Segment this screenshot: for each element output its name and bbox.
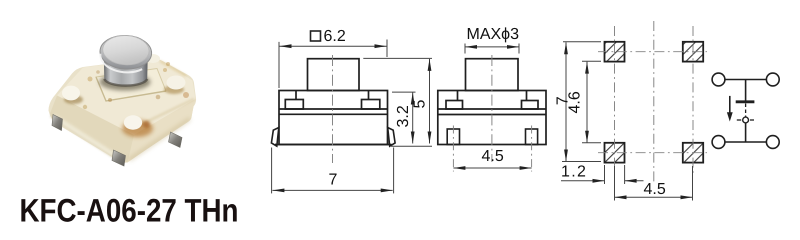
dim 5: bottom extension: [391, 145, 432, 147]
schematic: actuator dash right: [750, 119, 754, 121]
side view: left step: [457, 91, 459, 101]
pcb dim 1.2: line right: [625, 180, 644, 182]
pcb: right column center line: [692, 26, 694, 175]
photo: boss right stain: [164, 85, 184, 94]
photo: button shadow ring: [100, 74, 151, 91]
front view: right bump: [362, 100, 380, 110]
pcb dim 1.2: arrows: [593, 179, 605, 183]
photo: button cylinder bottom dark ring: [104, 79, 147, 86]
photo: left base light band: [53, 116, 120, 159]
pcb dim 4.5: right extension: [692, 166, 694, 201]
pcb: central vertical center line: [653, 21, 655, 183]
pcb dimension 4.6: [582, 61, 601, 143]
pcb dim 1.2: left extension: [604, 165, 606, 184]
svg-text:MAXϕ3: MAXϕ3: [467, 26, 520, 43]
pcb: left column center line: [614, 26, 616, 175]
front view dimension 7: [272, 148, 394, 194]
dim 6.2: square symbol: [311, 31, 321, 41]
pcb: pad top-right: [683, 42, 703, 62]
photo: button platform: [96, 69, 166, 102]
schematic: wire from actuator to bottom: [745, 123, 747, 142]
front view: claw right: [388, 128, 395, 147]
pcb dim 4.5: line: [615, 196, 693, 198]
photo: claw left: [52, 115, 63, 131]
front view: button: [308, 59, 360, 91]
front view: cover line: [279, 108, 388, 110]
front view: body outline: [279, 91, 388, 145]
photo: boss front stain2: [143, 121, 150, 128]
pcb dim 7: bottom extension: [562, 161, 601, 163]
schematic: terminal circle top-right: [766, 73, 779, 86]
schematic: terminal circle bottom-right: [766, 136, 779, 149]
schematic: actuator dash left: [737, 119, 741, 121]
svg-text:6.2: 6.2: [324, 28, 346, 45]
front view dimension 3.2: [392, 92, 416, 143]
dim 7: line: [272, 189, 392, 191]
schematic: wire bottom: [725, 141, 767, 143]
svg-text:1.2: 1.2: [561, 163, 587, 180]
dim 7: arrows: [272, 189, 284, 193]
photo: button cylinder side: [104, 58, 148, 86]
side view: right bump: [522, 101, 539, 110]
schematic: wire from top to contact bar: [745, 80, 747, 101]
photo: bottom-right edge shade: [129, 119, 190, 160]
side view: base top line: [438, 114, 546, 116]
pcb dim 4.5: left extension: [614, 166, 616, 201]
svg-text:4.5: 4.5: [482, 148, 504, 165]
pcb dim 4.6: top extension: [582, 60, 601, 62]
dim 6.2: arrows: [280, 44, 292, 48]
schematic: contact bar: [736, 100, 755, 103]
front view dimension 5: [363, 58, 432, 146]
side view: left pin center line: [452, 126, 454, 172]
dim 7: right extension: [393, 148, 395, 194]
pcb dimension 4.5: [615, 166, 693, 201]
pcb dim 4.5: arrows: [615, 195, 627, 199]
pcb: bottom row center line: [598, 152, 707, 154]
schematic: actuator circle: [743, 117, 749, 123]
dim 6.2: line: [280, 45, 387, 47]
photo: claw right: [169, 132, 183, 148]
dim 5: top extension: [363, 57, 432, 59]
photo: top face: [57, 59, 196, 136]
schematic: press arrow shaft: [729, 96, 731, 114]
svg-text:4.6: 4.6: [567, 91, 584, 113]
front view: right step: [368, 91, 370, 100]
side view: body outline: [438, 91, 546, 145]
schematic: terminal circle top-left: [712, 73, 725, 86]
svg-text:4.5: 4.5: [644, 181, 666, 198]
front view dimension 6.2: [279, 40, 387, 89]
svg-text:7: 7: [329, 171, 338, 188]
photo: button cap: [99, 34, 152, 73]
pcb dim 7: top extension: [563, 41, 601, 43]
photo: boss left: [62, 86, 80, 101]
pcb dim 7: arrows: [564, 42, 568, 54]
side view: button: [466, 59, 519, 91]
dim 6.2: right extension: [386, 40, 388, 58]
side view: right step: [526, 91, 528, 101]
dim 4.5 side: line: [453, 167, 531, 169]
side view: right pin center line: [531, 126, 533, 172]
photo: back-right boss hint: [146, 54, 160, 63]
photo: front-left face: [50, 96, 134, 163]
front view: center line: [332, 55, 334, 163]
front view: left bump: [285, 100, 303, 110]
pcb dim 1.2: right extension: [624, 165, 626, 184]
side view dimension 4.5: [453, 167, 531, 169]
schematic: terminal circle bottom-left: [712, 136, 725, 149]
photo: boss front stain: [122, 120, 153, 137]
dim 3.2: top extension: [392, 91, 416, 93]
dim 7: left extension: [271, 148, 273, 194]
pcb dimension 1.2: [561, 165, 644, 184]
pcb: pad top-left: [605, 42, 625, 62]
photo: bottom-left edge shade: [51, 116, 122, 162]
front view: claw left: [271, 128, 278, 147]
front view: base top line: [279, 113, 388, 115]
photo: front-right face: [128, 99, 196, 163]
pcb: pad bottom-left: [605, 143, 625, 163]
dim 6.2: left extension: [278, 42, 280, 88]
side view dimension MAX phi3: [465, 44, 519, 54]
front view: left step: [295, 91, 297, 100]
photo: boss front: [124, 115, 142, 129]
svg-text:KFC-A06-27 THn: KFC-A06-27 THn: [20, 192, 239, 228]
schematic: movable contact dashed link: [745, 104, 747, 117]
pcb dim 4.6: line: [586, 62, 588, 143]
svg-text:3.2: 3.2: [395, 105, 412, 127]
side view: right pin: [526, 129, 538, 145]
photo: boss right: [167, 76, 186, 90]
photo: boss left shadow: [64, 95, 83, 104]
pcb: top row center line: [598, 51, 707, 53]
dim phi3: arrows: [465, 45, 477, 49]
pcb dim 1.2: line left: [561, 180, 605, 182]
photo: top face edge line right: [140, 99, 194, 125]
side view: center line: [491, 55, 493, 162]
photo: back-right edge stain: [160, 61, 186, 76]
photo: claw bottom: [112, 150, 126, 166]
schematic: press arrow head: [727, 112, 733, 121]
dim 5: line: [429, 59, 431, 144]
side view: left pin: [447, 129, 459, 145]
schematic: wire top: [725, 79, 767, 81]
pcb dim 4.6: arrows: [585, 62, 589, 74]
side view: cover line: [438, 108, 546, 110]
dim phi3: line: [465, 46, 519, 48]
dim 4.5 side: arrows: [453, 166, 465, 170]
pcb dim 4.6: bottom extension: [582, 142, 601, 144]
photo: body silhouette: [49, 58, 197, 163]
front view: bottom line: [275, 144, 392, 146]
side view: left bump: [446, 101, 463, 110]
dim phi3: right extension: [518, 44, 520, 54]
pcb dim 7: line: [565, 42, 567, 161]
dim 5: arrows: [428, 59, 432, 71]
dim 3.2: arrows: [411, 93, 415, 105]
svg-text:5: 5: [412, 100, 429, 109]
pcb dimension 7: [562, 42, 601, 162]
pcb: pad bottom-right: [683, 143, 703, 163]
dim 3.2: line: [412, 93, 414, 144]
dim phi3: left extension: [464, 44, 466, 54]
photo: small stains top face: [88, 77, 93, 82]
